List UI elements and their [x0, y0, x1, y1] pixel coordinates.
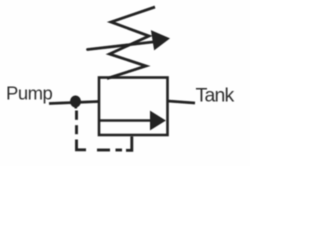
svg-text:Pump: Pump [6, 83, 53, 104]
valve body envelope (relief valve square) [99, 78, 168, 136]
adjustment arrow shaft [88, 42, 158, 50]
junction dot tail [75, 105, 78, 109]
pilot line (dashed) corner dash [77, 140, 87, 150]
adjustment arrow head [152, 31, 170, 50]
svg-text:Tank: Tank [196, 84, 235, 106]
wire: pump line [49, 102, 99, 104]
pilot line (dashed) vertical segment dash 1 [75, 111, 78, 120]
flow path arrow head [151, 112, 166, 130]
pilot line stub up to valve bottom [126, 137, 132, 151]
junction dot on pump line [70, 96, 81, 108]
pilot line (dashed) horizontal dash 3 [116, 149, 123, 152]
flow path arrow shaft inside valve [100, 119, 152, 122]
spring (adjustable relief spring) [107, 7, 155, 79]
pilot line (dashed) vertical segment dash 2 [75, 125, 78, 134]
wire: tank line [168, 101, 196, 103]
pilot line (dashed) horizontal dash 2 [97, 149, 110, 152]
